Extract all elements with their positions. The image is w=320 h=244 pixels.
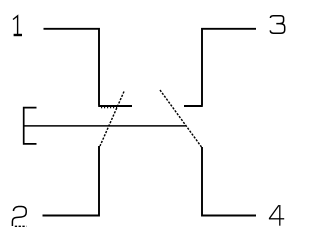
pin label 4 [269, 205, 284, 226]
actuator bar [24, 125, 186, 127]
actuator bracket [24, 108, 37, 144]
pin label 3 [270, 16, 284, 34]
wire 1 [44, 29, 100, 106]
pin label 2 [12, 207, 26, 227]
wire 2 [43, 146, 100, 216]
wire 3 [202, 29, 256, 106]
wire 4 [202, 147, 256, 216]
pin label 1 [13, 16, 22, 35]
fixed contact pin3 foot [184, 105, 203, 107]
fixed contact pin1 foot [98, 105, 132, 107]
movable lever left (pin 2) [100, 92, 124, 147]
movable lever right (pin 4) [160, 90, 202, 147]
contact serration pin1 [102, 106, 117, 108]
